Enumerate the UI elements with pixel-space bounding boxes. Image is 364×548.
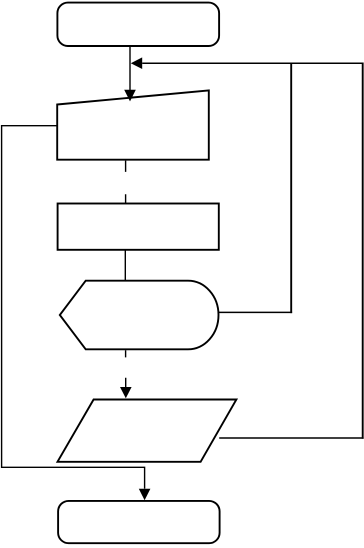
terminator (end) <box>58 501 220 543</box>
arrowhead down into parallelogram <box>120 387 132 398</box>
parallelogram (input/output) <box>58 400 237 462</box>
wire terminator to manual input <box>129 46 131 90</box>
wire right inner horizontal to display <box>218 311 292 313</box>
display shape <box>60 281 219 350</box>
wire process to display <box>124 250 126 281</box>
wire right inner vertical <box>290 63 292 314</box>
wire right outer horizontal to parallelogram <box>219 437 363 439</box>
arrowhead down into manual input <box>124 90 136 102</box>
dashed wire display to parallelogram <box>125 350 127 387</box>
wire left long connector <box>2 126 145 489</box>
dashed wire manual input to process <box>125 161 127 204</box>
wire top horizontal feedback <box>142 62 363 64</box>
process rectangle <box>58 204 219 250</box>
terminator (start) <box>57 3 219 46</box>
manual input <box>57 90 209 159</box>
arrowhead left into vertical wire <box>131 57 142 69</box>
wire right outer vertical <box>362 63 364 439</box>
arrowhead down into end terminator <box>139 489 151 501</box>
